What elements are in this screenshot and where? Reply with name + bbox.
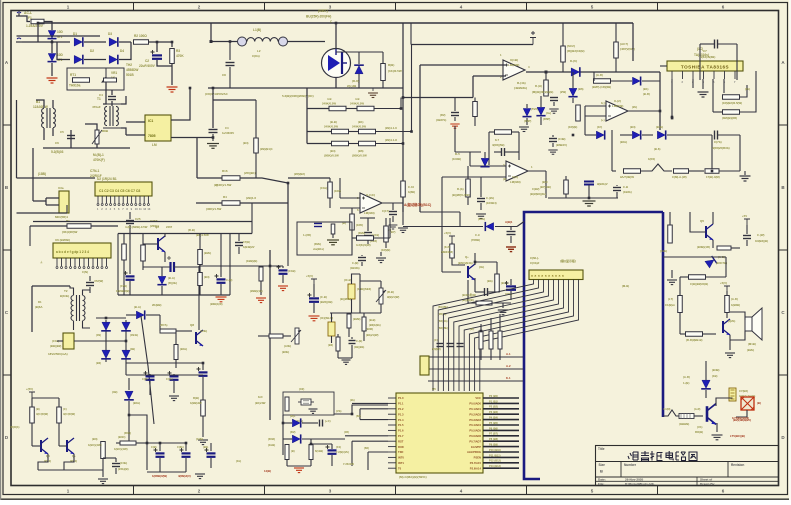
svg-text:(B2): (B2) bbox=[328, 343, 333, 347]
inductor L1 bbox=[247, 38, 278, 42]
MCU left pin stubs bbox=[388, 398, 396, 468]
sp bbox=[288, 177, 340, 179]
svg-text:P1.5: P1.5 bbox=[398, 423, 404, 427]
svg-text:2K(BB): 2K(BB) bbox=[152, 303, 162, 307]
svg-text:5.2(B)(03R)(2RB)V(0C): 5.2(B)(03R)(2RB)V(0C) bbox=[282, 94, 314, 98]
svg-text:TH910a: TH910a bbox=[69, 84, 81, 88]
svg-text:P1 (B1): P1 (B1) bbox=[489, 399, 498, 403]
IC U3 vertical bbox=[59, 191, 69, 213]
svg-text:P0.6/AD6: P0.6/AD6 bbox=[469, 434, 481, 438]
svg-text:(C1B): (C1B) bbox=[288, 269, 296, 273]
wire Q5 base bbox=[690, 212, 706, 232]
border tick top bbox=[264, 3, 266, 11]
ground C37 red bbox=[278, 286, 288, 291]
wire IC1 out bbox=[171, 88, 190, 120]
border tick top bbox=[133, 3, 135, 11]
wire A1 bbox=[428, 356, 523, 358]
ground sensor2 bbox=[376, 258, 386, 263]
svg-text:D2: D2 bbox=[90, 49, 94, 53]
svg-text:C(8n): C(8n) bbox=[252, 54, 260, 58]
sp bbox=[663, 360, 706, 362]
svg-text:P10 (B10): P10 (B10) bbox=[489, 448, 501, 452]
svg-text:ALE/PROG: ALE/PROG bbox=[467, 450, 481, 454]
resistor R43 bbox=[624, 169, 641, 174]
wire AC neutral bbox=[22, 41, 57, 43]
border tick top bbox=[395, 3, 397, 11]
wire reg rail top bbox=[118, 233, 252, 235]
svg-text:C7(B2): C7(B2) bbox=[739, 389, 748, 393]
svg-text:a b c d e f g dp 1 2 3 4: a b c d e f g dp 1 2 3 4 bbox=[56, 250, 89, 254]
wire top D3 bbox=[663, 256, 726, 258]
diode D12 bbox=[568, 88, 577, 96]
svg-text:240K/0.5W: 240K/0.5W bbox=[322, 102, 336, 106]
wire bbox=[358, 52, 360, 64]
wire from D3 down bbox=[705, 361, 707, 375]
image right edge white sliver bbox=[789, 0, 791, 500]
svg-text:RT1: RT1 bbox=[70, 73, 76, 77]
wire bbox=[119, 42, 131, 60]
wire emitter bus bbox=[208, 87, 403, 89]
capacitor C31 electrolytic bbox=[170, 376, 179, 379]
IC TA8316S pin stubs bbox=[671, 71, 673, 79]
wire bbox=[185, 443, 187, 451]
svg-text:10D: 10D bbox=[57, 53, 64, 57]
image left edge line bbox=[0, 0, 1, 500]
wire bbox=[499, 349, 501, 360]
wire bbox=[562, 62, 564, 72]
svg-text:(A-D): (A-D) bbox=[731, 297, 738, 301]
svg-text:(2R)(B2): (2R)(B2) bbox=[294, 172, 305, 176]
svg-text:(C7B): (C7B) bbox=[120, 284, 127, 288]
wire in+ riser bbox=[419, 65, 421, 212]
svg-text:P1.7: P1.7 bbox=[398, 434, 404, 438]
wire bbox=[562, 23, 564, 46]
border tick right bbox=[779, 249, 788, 251]
diode D19 bbox=[292, 418, 300, 427]
svg-text:C4: C4 bbox=[225, 126, 229, 130]
IC U2 pin stubs bottom bbox=[97, 196, 99, 203]
svg-text:(B): (B) bbox=[36, 407, 40, 411]
diode D23 bbox=[121, 322, 131, 331]
svg-text:Q+: Q+ bbox=[465, 255, 469, 259]
svg-text:(R2): (R2) bbox=[440, 113, 446, 117]
wire bbox=[287, 41, 325, 43]
svg-text:C(17): C(17) bbox=[382, 209, 389, 213]
sp bbox=[334, 398, 388, 400]
svg-text:P0.5/AD5: P0.5/AD5 bbox=[469, 429, 481, 433]
ground C12b bbox=[548, 150, 557, 154]
wire bbox=[615, 23, 617, 42]
wire bbox=[351, 441, 353, 466]
wire bbox=[480, 324, 482, 331]
wire T2 sec top bbox=[83, 290, 91, 295]
wire bbox=[705, 375, 707, 380]
wire bbox=[115, 468, 117, 474]
wire bbox=[255, 100, 257, 138]
svg-text:P0.3/AD3: P0.3/AD3 bbox=[469, 418, 481, 422]
wire bbox=[713, 111, 723, 113]
wire Q13 collector bbox=[716, 398, 733, 406]
wire bbox=[176, 330, 192, 332]
resistor R61 bbox=[362, 317, 366, 331]
ground C12 bbox=[549, 109, 558, 113]
svg-text:D-5: D-5 bbox=[455, 152, 460, 156]
svg-text:(B6): (B6) bbox=[358, 149, 364, 153]
transistor Q5 bbox=[706, 224, 713, 240]
wire bbox=[202, 416, 204, 437]
wire bbox=[360, 217, 375, 219]
capacitor C5 bbox=[67, 136, 75, 139]
svg-text:P4 (B4): P4 (B4) bbox=[489, 416, 498, 420]
wire Q2 base bbox=[143, 243, 158, 245]
wire bbox=[572, 72, 574, 88]
wire bbox=[351, 345, 353, 358]
wire bbox=[490, 318, 492, 331]
resistor R37 bbox=[576, 105, 581, 121]
svg-text:P3 (B3): P3 (B3) bbox=[489, 410, 498, 414]
ground rectifier bbox=[167, 87, 178, 92]
wire pin2 riser bbox=[196, 138, 198, 179]
wire bbox=[310, 459, 312, 466]
wire bbox=[58, 423, 60, 446]
sp bbox=[16, 178, 18, 213]
wire bbox=[584, 130, 586, 135]
transistor Q10 bbox=[67, 438, 74, 454]
wire bbox=[671, 270, 673, 278]
wire bbox=[499, 314, 501, 331]
wire bbox=[340, 197, 360, 199]
resistor R31 bbox=[561, 46, 566, 62]
wire bbox=[480, 349, 482, 360]
capacitor C18b bbox=[314, 224, 322, 227]
svg-text:470K(F): 470K(F) bbox=[93, 158, 105, 162]
wire bbox=[585, 134, 596, 136]
wire bbox=[392, 203, 394, 210]
resistor R2 bbox=[134, 40, 149, 45]
wire bbox=[620, 134, 632, 136]
svg-text:(2BB)(1b): (2BB)(1b) bbox=[250, 289, 263, 293]
wire bbox=[584, 106, 586, 130]
svg-text:(D1b): (D1b) bbox=[478, 217, 485, 221]
wire bbox=[103, 457, 116, 459]
resistor R15 bbox=[381, 64, 386, 81]
resistor R11 bbox=[329, 106, 346, 111]
svg-text:(R2b): (R2b) bbox=[358, 231, 365, 235]
wire bbox=[494, 151, 501, 153]
wire bbox=[510, 291, 512, 300]
wire bbox=[129, 281, 131, 295]
wire bbox=[220, 284, 222, 295]
wire bbox=[540, 117, 542, 125]
svg-text:7805: 7805 bbox=[148, 134, 156, 138]
svg-text:LM(339): LM(339) bbox=[508, 63, 519, 67]
wire top bus bbox=[38, 22, 633, 24]
wire bbox=[38, 454, 48, 470]
svg-text:(B)#(B6)(4b): (B)#(B6)(4b) bbox=[530, 192, 546, 196]
svg-text:C7: C7 bbox=[703, 49, 707, 53]
+5V stub 3 bbox=[29, 392, 35, 398]
wire to Q6 bbox=[452, 258, 465, 265]
svg-text:L1(B): L1(B) bbox=[253, 28, 261, 32]
svg-text:(B3C): (B3C) bbox=[118, 435, 126, 439]
fuse bead FB2 bbox=[279, 37, 288, 46]
wire bbox=[376, 131, 412, 133]
title block divider v2 bbox=[727, 462, 729, 478]
transformer T1 secondary bbox=[116, 106, 118, 125]
sp bbox=[736, 393, 747, 397]
svg-text:(R)O(1): (R)O(1) bbox=[10, 425, 20, 429]
svg-text:12A02DW: 12A02DW bbox=[33, 105, 48, 109]
wire bbox=[593, 72, 595, 81]
svg-text:1(8B): 1(8B) bbox=[408, 190, 415, 194]
capacitor C22 bbox=[485, 288, 488, 296]
wire bus drop right bbox=[632, 23, 634, 61]
op-amp U3A bbox=[506, 161, 528, 181]
capacitor C38 electrolytic bbox=[309, 298, 319, 301]
resistor R3 bbox=[170, 49, 175, 64]
svg-text:(R6P): (R6P) bbox=[543, 117, 550, 121]
svg-text:Sheet of: Sheet of bbox=[700, 478, 713, 482]
wire bbox=[311, 443, 332, 445]
svg-text:Size: Size bbox=[599, 463, 606, 467]
diode D10 bbox=[536, 107, 545, 115]
wire bbox=[480, 203, 482, 210]
svg-text:P8 (B8): P8 (B8) bbox=[489, 437, 498, 441]
svg-text:A-1: A-1 bbox=[506, 352, 511, 356]
resistor R20 bbox=[401, 181, 406, 197]
ground C31 bbox=[169, 396, 179, 401]
ground fb bbox=[519, 127, 529, 132]
wire bbox=[706, 276, 726, 278]
wire bbox=[159, 458, 161, 472]
thermistor IC8 bbox=[348, 284, 355, 299]
svg-text:B(K4b): B(K4b) bbox=[60, 294, 69, 298]
connector CN1 bbox=[529, 270, 583, 280]
wire pin3 down bbox=[692, 79, 694, 88]
wire bbox=[736, 44, 738, 80]
svg-text:P12 (B12): P12 (B12) bbox=[489, 459, 501, 463]
wire bbox=[372, 88, 374, 91]
wire bbox=[410, 23, 412, 45]
svg-text:240K/0.5W: 240K/0.5W bbox=[352, 125, 366, 129]
resistor R25 bbox=[384, 226, 389, 242]
svg-text:C6: C6 bbox=[55, 141, 59, 145]
wire bbox=[348, 313, 350, 314]
transistor Q9 bbox=[41, 438, 48, 454]
svg-text:BU(25R)-200(FH): BU(25R)-200(FH) bbox=[306, 15, 331, 19]
wire to speaker bbox=[730, 312, 745, 320]
wire ladder left rail bbox=[306, 88, 308, 144]
wire bbox=[157, 60, 172, 66]
wire bbox=[351, 230, 353, 238]
wire bbox=[147, 442, 186, 444]
wire bbox=[360, 280, 381, 282]
resistor R54 striped bbox=[679, 414, 694, 419]
+5V stub 2 bbox=[449, 236, 455, 242]
svg-text:(B): (B) bbox=[291, 449, 295, 453]
wire bbox=[389, 218, 391, 238]
resistor R35b bbox=[101, 442, 106, 459]
wire long bus 221 bbox=[33, 221, 252, 223]
MCU block thick outline bbox=[524, 212, 663, 479]
svg-text:(M)(B)(0R)(B)(B): (M)(B)(0R)(B)(B) bbox=[532, 90, 553, 94]
transformer B1 right bbox=[53, 108, 55, 127]
capacitor C12b bbox=[549, 139, 557, 142]
svg-text:(Bb): (Bb) bbox=[487, 279, 493, 283]
wire bbox=[331, 336, 333, 343]
svg-text:9A/7(4B)W: 9A/7(4B)W bbox=[620, 175, 634, 179]
svg-text:1-(2R): 1-(2R) bbox=[303, 233, 311, 237]
svg-text:IC1: IC1 bbox=[148, 119, 153, 123]
svg-text:P0.4/AD4: P0.4/AD4 bbox=[469, 423, 481, 427]
svg-text:C(7b): C(7b) bbox=[714, 140, 722, 144]
wire xtal right bbox=[334, 413, 352, 415]
transformer T2 primary bbox=[71, 296, 74, 321]
svg-text:(B4): (B4) bbox=[356, 415, 361, 418]
svg-text:8-D: 8-D bbox=[258, 395, 263, 399]
wire bbox=[175, 359, 177, 368]
wire reg left bbox=[117, 234, 119, 296]
svg-text:AC-L: AC-L bbox=[24, 11, 32, 15]
ground C11 bbox=[450, 124, 459, 128]
relay K1 bbox=[741, 397, 754, 410]
wire bbox=[282, 266, 284, 268]
wire bbox=[496, 262, 498, 274]
wire bbox=[282, 275, 284, 283]
svg-text:(B4): (B4) bbox=[630, 125, 636, 129]
svg-text:(0BK)/0.5W: (0BK)/0.5W bbox=[352, 154, 367, 158]
svg-text:P1.0: P1.0 bbox=[398, 396, 404, 400]
svg-text:(D32): (D32) bbox=[268, 437, 275, 441]
wire bbox=[642, 134, 653, 136]
wire bbox=[489, 131, 494, 133]
sp bbox=[334, 398, 388, 399]
wire left drop bbox=[198, 266, 200, 330]
svg-text:5.2(B)03: 5.2(B)03 bbox=[51, 150, 64, 154]
svg-text:(7R6B): (7R6B) bbox=[471, 238, 480, 242]
svg-text:(R-B): (R-B) bbox=[387, 290, 394, 294]
resistor R14 bbox=[359, 129, 376, 134]
sp bbox=[286, 443, 288, 445]
svg-text:P0.0/AD0: P0.0/AD0 bbox=[469, 402, 481, 406]
svg-text:TXD: TXD bbox=[398, 450, 403, 454]
wire bbox=[199, 264, 201, 272]
wire Q5 emitter bbox=[712, 240, 714, 248]
wire bbox=[149, 381, 151, 395]
wire bbox=[332, 313, 341, 322]
title block outline bbox=[596, 446, 779, 486]
svg-text:+5V: +5V bbox=[742, 214, 747, 218]
wire bbox=[142, 234, 144, 246]
svg-text:C(B)(B2)/O(B): C(B)(B2)/O(B) bbox=[690, 282, 708, 286]
wire bbox=[156, 42, 158, 52]
wire bbox=[400, 98, 402, 109]
svg-text:(1N4B): (1N4B) bbox=[452, 157, 461, 161]
svg-text:(B-B): (B-B) bbox=[369, 318, 375, 322]
resistor R35 bbox=[614, 42, 619, 58]
capacitor C37 electrolytic bbox=[279, 270, 288, 273]
title block row line 2 bbox=[596, 476, 779, 478]
resistor R1b bbox=[67, 224, 91, 229]
svg-text:Revision: Revision bbox=[731, 463, 744, 467]
svg-text:2467: 2467 bbox=[166, 225, 173, 229]
capacitor C17 bbox=[389, 212, 397, 215]
wire bbox=[36, 100, 44, 108]
svg-text:(1R2): (1R2) bbox=[334, 189, 341, 193]
wire bbox=[385, 242, 387, 248]
svg-text:U3a: U3a bbox=[58, 186, 64, 190]
ground Q13 bbox=[712, 435, 723, 440]
svg-text:C-(E): C-(E) bbox=[356, 339, 362, 343]
svg-text:C1 C2 C3 C4 C5 C6 C7 C8: C1 C2 C3 C4 C5 C6 C7 C8 bbox=[99, 189, 140, 193]
resistor R45 bbox=[705, 169, 719, 174]
capacitor C7 bbox=[715, 40, 718, 49]
svg-text:(C1): (C1) bbox=[336, 445, 341, 449]
wire bbox=[545, 72, 547, 80]
wire bbox=[125, 362, 127, 375]
wire IC7 out bbox=[74, 340, 96, 342]
resistor R51 bbox=[678, 296, 683, 313]
transformer B1 core bbox=[47, 108, 50, 128]
ground A4 bbox=[98, 479, 108, 484]
wire bbox=[31, 286, 33, 332]
wire MCU pin9 bbox=[352, 440, 388, 442]
svg-text:C25: C25 bbox=[135, 217, 141, 221]
wire bbox=[340, 207, 360, 209]
wire bbox=[111, 101, 113, 106]
wire row2 bbox=[307, 131, 332, 133]
svg-text:17(B)-4(M): 17(B)-4(M) bbox=[706, 175, 720, 179]
varistor VR2 bbox=[92, 130, 102, 144]
wire bus 363 bbox=[126, 362, 203, 364]
wire bbox=[454, 126, 456, 152]
resistor R22 bbox=[328, 182, 333, 198]
resistor R46 bbox=[668, 225, 673, 243]
svg-text:1.25A/250V: 1.25A/250V bbox=[26, 24, 44, 28]
sp bbox=[387, 397, 389, 399]
ground D3 bbox=[667, 280, 677, 285]
wire bbox=[185, 458, 187, 472]
svg-text:(1R)(B): (1R)(B) bbox=[381, 248, 390, 252]
wire bbox=[588, 185, 590, 198]
svg-text:P13 (B13): P13 (B13) bbox=[489, 464, 501, 468]
svg-text:(B0b): (B0b) bbox=[282, 350, 289, 354]
transistor Q8 bbox=[196, 330, 203, 346]
resistor R42 bbox=[723, 110, 740, 115]
sensor loop bbox=[297, 222, 352, 255]
svg-text:(Vb): (Vb) bbox=[336, 409, 342, 413]
svg-text:1(B4B)2V: 1(B4B)2V bbox=[243, 245, 255, 249]
sp bbox=[192, 337, 331, 339]
wire bbox=[474, 253, 476, 265]
wire bbox=[348, 328, 350, 337]
svg-text:(B-A): (B-A) bbox=[134, 305, 141, 309]
ground IGBT bbox=[368, 93, 378, 98]
svg-text:(B7)(4B): (B7)(4B) bbox=[540, 185, 551, 189]
svg-text:A(驱动脉冲)(B1C): A(驱动脉冲)(B1C) bbox=[404, 202, 431, 207]
wire bbox=[161, 286, 163, 295]
svg-text:1N(B3)(B): 1N(B3)(B) bbox=[755, 239, 768, 243]
ground cluster bbox=[498, 310, 508, 315]
wire bbox=[84, 41, 106, 43]
diode D18 bbox=[485, 222, 493, 231]
wire bbox=[492, 302, 511, 304]
ground TA8316 bbox=[698, 92, 709, 97]
wire to varistor bbox=[44, 22, 52, 31]
capacitor C20 bbox=[507, 232, 516, 235]
svg-text:4(R2)(5B): 4(R2)(5B) bbox=[492, 143, 505, 147]
title block divider v3 bbox=[696, 477, 698, 486]
